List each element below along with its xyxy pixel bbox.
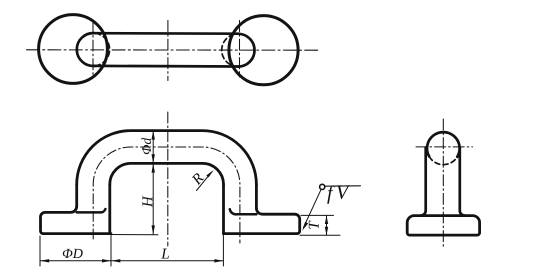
top view left tube circle hidden arc (dashed) <box>95 33 110 66</box>
H top arrow <box>152 164 155 173</box>
label L-label <box>161 249 169 259</box>
label H-label <box>142 196 152 208</box>
side view tube circle hidden arc (dashed) <box>429 157 457 165</box>
front view outer contour (arch, legs, feet) <box>41 206 111 233</box>
front view right foot fillet runout hook <box>230 209 257 214</box>
label T-label <box>309 220 319 228</box>
side view horizontal centerline <box>416 146 473 148</box>
front view right outer leg <box>255 185 258 209</box>
label V-label <box>337 185 350 199</box>
T dimension line <box>326 216 328 235</box>
top view right tube circle hidden arc (dashed) <box>222 34 238 67</box>
extension line under left foot bottom (for H) <box>111 234 158 236</box>
Phi-d bottom arrow <box>152 154 155 163</box>
T bottom extension line <box>300 234 340 236</box>
Phi-d top arrow <box>152 131 155 140</box>
front view left foot fillet runout hook <box>77 209 106 212</box>
surface finish leader line <box>304 190 321 228</box>
T bottom arrow <box>325 227 328 235</box>
front view tube centerline (legs and bend arcs) <box>93 147 240 243</box>
surface finish flag line <box>325 185 361 187</box>
T top arrow <box>325 216 328 224</box>
L left arrow <box>111 259 120 262</box>
PhiD right arrow <box>102 259 111 262</box>
front view outer arch (right arc, top, left arc) <box>77 131 257 185</box>
extension line right end of L <box>222 235 224 266</box>
extension line left of PhiD <box>39 236 41 266</box>
H bottom arrow <box>152 225 155 234</box>
top view right tube circle solid arc <box>238 34 255 67</box>
side view tube circle solid arc <box>427 132 460 157</box>
extension line shared PhiD/L <box>110 235 112 266</box>
top view left vertical centerline <box>92 22 94 78</box>
top view middle vertical centerline <box>167 21 169 81</box>
PhiD dimension line <box>41 260 111 262</box>
side view vertical centerline <box>442 119 444 247</box>
label PhiD-label <box>63 249 83 258</box>
front view inner arch (left arc, top, right arc) <box>110 163 224 184</box>
top view left tube circle solid arc <box>77 33 95 66</box>
top view bar bottom edge <box>94 65 239 68</box>
side view stem left edge with fillet <box>421 148 426 216</box>
top view right vertical centerline <box>239 21 241 78</box>
L dimension line <box>112 260 224 262</box>
front view left inner leg <box>108 185 111 234</box>
R leader arrowhead <box>206 170 214 178</box>
H dimension line with arrows <box>152 164 154 234</box>
side view stem right edge with fillet <box>460 148 465 216</box>
PhiD left arrow <box>40 259 49 262</box>
top view right flange circle (PhiD) <box>229 16 298 85</box>
side view base outline <box>407 216 479 236</box>
surface finish leader arrowhead <box>302 222 308 231</box>
front view right foot contour <box>224 208 300 233</box>
front view middle vertical centerline <box>167 112 169 246</box>
T top extension line <box>301 214 334 216</box>
top view horizontal centerline <box>27 49 319 51</box>
front view left outer leg <box>75 185 78 207</box>
label f-label <box>327 185 335 203</box>
label Phid-label <box>142 138 152 154</box>
Phi-d dimension line with arrows <box>152 131 154 163</box>
label R-label <box>192 173 204 185</box>
top view left flange circle (PhiD) <box>39 15 108 84</box>
top view bar top edge <box>94 32 239 35</box>
surface finish ring <box>320 184 325 189</box>
L right arrow <box>214 259 223 262</box>
R leader line <box>197 172 212 190</box>
front view right inner leg <box>222 185 225 234</box>
